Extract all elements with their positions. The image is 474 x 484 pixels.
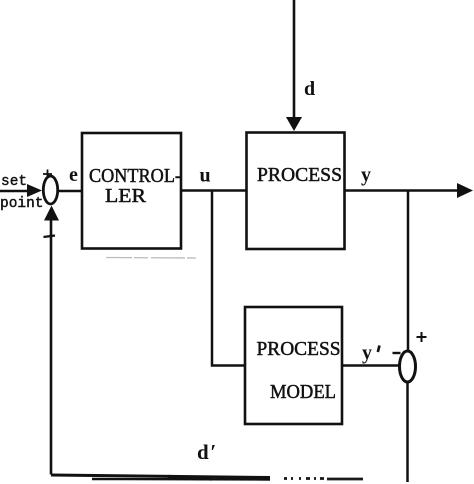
arrowhead into S1 bottom [44,206,59,221]
svg-text:CONTROL-: CONTROL- [89,165,181,187]
wire u [181,189,247,192]
wire: branch down to summer S2 [407,191,410,353]
arrowhead into summer S1 [27,184,42,197]
controller block [82,133,181,249]
svg-text:MODEL: MODEL [270,381,336,403]
wire: S2 output down [406,382,409,482]
wire: set point input [0,190,30,193]
svg-text:u: u [200,165,211,187]
minus tick on feedback wire [44,236,56,238]
svg-text:point: point [0,196,44,212]
disturbance wire d [293,0,296,120]
feedback bottom wire [51,475,270,478]
wire y' [342,364,400,367]
svg-text:PROCESS: PROCESS [257,338,341,360]
plus sign at summer S1 [43,170,52,179]
set point label [0,174,44,212]
label CONTROL- LER [89,165,181,207]
arrowhead output y [457,183,473,198]
wire y [345,189,461,192]
process block [247,133,345,250]
feedback bottom wire (broken scan segments) [284,477,363,480]
svg-text:d ʹ: d ʹ [197,440,216,464]
plus sign at S2 [417,332,427,342]
feedback left wire [50,220,53,475]
wire: branch down to model [212,191,245,366]
svg-text:PROCESS: PROCESS [257,164,342,186]
minus sign at S2 [393,352,401,354]
svg-text:LER: LER [105,185,147,207]
svg-text:y: y [361,164,371,186]
apostrophe of y' [378,346,380,353]
summing junction S1 [43,176,57,204]
feedback bottom wire thick scan doubling [92,478,270,481]
svg-text:y: y [362,342,372,364]
svg-text:set: set [1,174,27,190]
process model block [245,307,342,424]
scan artifact line under controller box [106,257,196,260]
svg-text:d: d [304,78,315,100]
summing junction S2 [400,351,416,382]
svg-text:e: e [69,164,78,186]
wire e [58,190,83,193]
arrowhead of d into process [286,117,302,131]
